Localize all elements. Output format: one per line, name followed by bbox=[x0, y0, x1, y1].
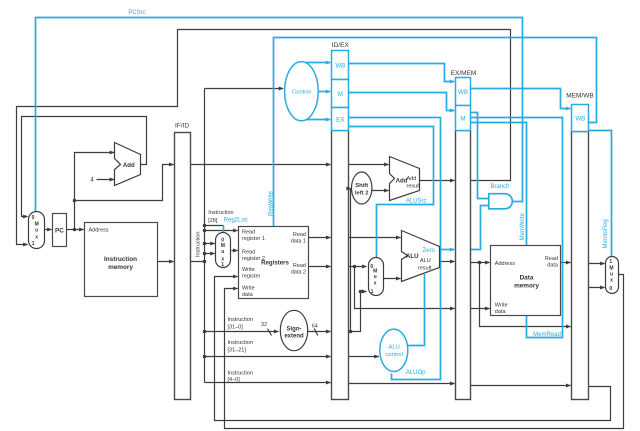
svg-text:0: 0 bbox=[609, 286, 612, 292]
svg-text:M: M bbox=[460, 115, 465, 122]
svg-text:[28]: [28] bbox=[208, 218, 218, 224]
svg-text:Write: Write bbox=[495, 303, 508, 309]
svg-text:Shift: Shift bbox=[355, 183, 368, 189]
svg-text:[31–21]: [31–21] bbox=[228, 347, 247, 353]
svg-text:MemRead: MemRead bbox=[533, 332, 561, 338]
svg-text:Data: Data bbox=[520, 275, 534, 282]
svg-text:ALUSrc: ALUSrc bbox=[406, 198, 427, 204]
svg-text:data 2: data 2 bbox=[291, 270, 306, 276]
svg-text:Read: Read bbox=[242, 229, 255, 235]
svg-text:x: x bbox=[374, 280, 377, 286]
svg-text:Add: Add bbox=[396, 178, 408, 185]
svg-text:ALU: ALU bbox=[406, 253, 419, 260]
svg-text:WB: WB bbox=[458, 89, 468, 96]
svg-text:Read: Read bbox=[545, 256, 558, 262]
svg-text:u: u bbox=[35, 228, 38, 234]
svg-text:register 1: register 1 bbox=[242, 236, 265, 242]
svg-text:1: 1 bbox=[371, 289, 374, 295]
svg-text:extend: extend bbox=[284, 334, 304, 340]
svg-text:ALU: ALU bbox=[420, 258, 431, 264]
svg-text:[4–0]: [4–0] bbox=[228, 377, 241, 383]
svg-text:left 2: left 2 bbox=[355, 190, 369, 196]
svg-text:Zero: Zero bbox=[423, 248, 436, 254]
svg-text:RegWrite: RegWrite bbox=[268, 190, 274, 216]
svg-text:M: M bbox=[338, 91, 343, 98]
svg-text:memory: memory bbox=[108, 264, 133, 271]
svg-text:1: 1 bbox=[609, 259, 612, 265]
svg-text:register: register bbox=[242, 274, 261, 280]
svg-text:32: 32 bbox=[261, 322, 267, 328]
svg-text:Read: Read bbox=[293, 263, 306, 269]
svg-text:0: 0 bbox=[32, 215, 35, 221]
svg-text:WB: WB bbox=[335, 62, 345, 69]
svg-text:data: data bbox=[242, 292, 254, 298]
svg-text:Sign-: Sign- bbox=[287, 326, 302, 332]
svg-text:Read: Read bbox=[293, 232, 306, 238]
svg-text:Address: Address bbox=[495, 261, 515, 267]
svg-text:4: 4 bbox=[90, 177, 94, 184]
svg-text:data: data bbox=[495, 309, 507, 315]
svg-text:MEM/WB: MEM/WB bbox=[566, 93, 593, 100]
svg-text:u: u bbox=[221, 249, 224, 255]
svg-text:1: 1 bbox=[32, 241, 35, 247]
svg-text:data 1: data 1 bbox=[291, 239, 306, 245]
svg-text:u: u bbox=[374, 274, 377, 280]
svg-text:EX/MEM: EX/MEM bbox=[451, 70, 477, 77]
svg-text:1: 1 bbox=[221, 262, 224, 268]
svg-text:result: result bbox=[407, 184, 421, 190]
svg-text:MemWrite: MemWrite bbox=[520, 213, 526, 241]
svg-text:result: result bbox=[418, 266, 432, 272]
svg-text:Instruction: Instruction bbox=[208, 210, 233, 216]
svg-text:[31–0]: [31–0] bbox=[228, 324, 244, 330]
svg-text:ID/EX: ID/EX bbox=[332, 42, 350, 49]
svg-text:Instruction: Instruction bbox=[196, 232, 202, 257]
svg-text:x: x bbox=[610, 278, 613, 284]
svg-text:x: x bbox=[35, 234, 38, 240]
svg-text:PCSrc: PCSrc bbox=[128, 10, 145, 16]
svg-text:Add: Add bbox=[123, 162, 135, 169]
svg-text:Reg2Loc: Reg2Loc bbox=[224, 217, 248, 223]
svg-text:control: control bbox=[385, 352, 402, 358]
svg-text:Registers: Registers bbox=[261, 260, 289, 267]
svg-text:ALU: ALU bbox=[389, 345, 400, 351]
svg-text:data: data bbox=[547, 262, 559, 268]
svg-text:Add: Add bbox=[407, 176, 417, 182]
svg-text:Read: Read bbox=[242, 250, 255, 256]
svg-text:Control: Control bbox=[292, 89, 311, 95]
svg-text:memory: memory bbox=[514, 283, 539, 290]
svg-text:ALUOp: ALUOp bbox=[406, 370, 426, 376]
svg-text:Instruction: Instruction bbox=[228, 317, 253, 323]
svg-text:EX: EX bbox=[336, 116, 344, 123]
svg-text:WB: WB bbox=[575, 115, 585, 122]
svg-text:Address: Address bbox=[89, 227, 109, 233]
svg-text:64: 64 bbox=[312, 324, 318, 330]
svg-text:IF/ID: IF/ID bbox=[175, 122, 189, 129]
svg-text:Instruction: Instruction bbox=[228, 370, 253, 376]
svg-text:PC: PC bbox=[55, 227, 64, 234]
svg-text:Instruction: Instruction bbox=[228, 340, 253, 346]
svg-text:Branch: Branch bbox=[490, 184, 509, 190]
svg-text:Write: Write bbox=[242, 267, 255, 273]
svg-text:MemtoReg: MemtoReg bbox=[603, 219, 609, 248]
svg-text:Instruction: Instruction bbox=[104, 256, 137, 263]
svg-text:Write: Write bbox=[242, 285, 255, 291]
